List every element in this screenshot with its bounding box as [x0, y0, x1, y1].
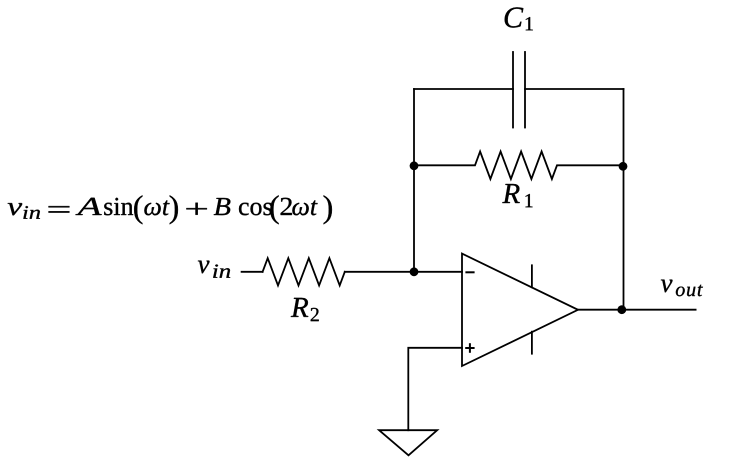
- label v_in (input terminal): [198, 261, 230, 278]
- op-amp U1 non-inverting input marker (plus): [466, 344, 473, 352]
- resistor R2 (zigzag): [263, 258, 345, 285]
- wire non-inverting input to ground (horizontal then vertical): [408, 348, 462, 430]
- label R2: [291, 298, 319, 321]
- wire left vertical (top rail down to inverting-input node): [413, 89, 415, 272]
- op-amp U1 V+ power pin: [531, 265, 533, 287]
- capacitor C1: [513, 52, 525, 128]
- label R1: [502, 184, 532, 207]
- junction dot: output node: [617, 305, 626, 314]
- op-amp U1 inverting input marker (minus): [466, 271, 473, 273]
- label C1: [505, 7, 533, 30]
- label v_out: [661, 280, 703, 297]
- op-amp U1 V- power pin: [531, 332, 533, 354]
- equation v_in = A sin(wt) + B cos(2wt): [8, 195, 332, 224]
- junction dot: inverting input node: [410, 267, 419, 276]
- wire top-left horizontal (feedback top rail to C1 left plate): [414, 88, 513, 90]
- wire input lead from v_in label: [242, 271, 263, 273]
- ground: [379, 430, 437, 455]
- junction dot: feedback left node: [410, 161, 419, 170]
- wire right vertical (top rail down to output node): [623, 89, 625, 310]
- op-amp U1 triangle body: [462, 254, 578, 366]
- wire output (op-amp apex to right edge): [578, 309, 696, 311]
- wire R2 to inverting input of op-amp: [345, 271, 462, 273]
- wire top-right horizontal (C1 right plate to right rail): [525, 88, 624, 90]
- resistor R1 (zigzag with leads): [414, 152, 624, 180]
- junction dot: feedback right node: [619, 162, 628, 171]
